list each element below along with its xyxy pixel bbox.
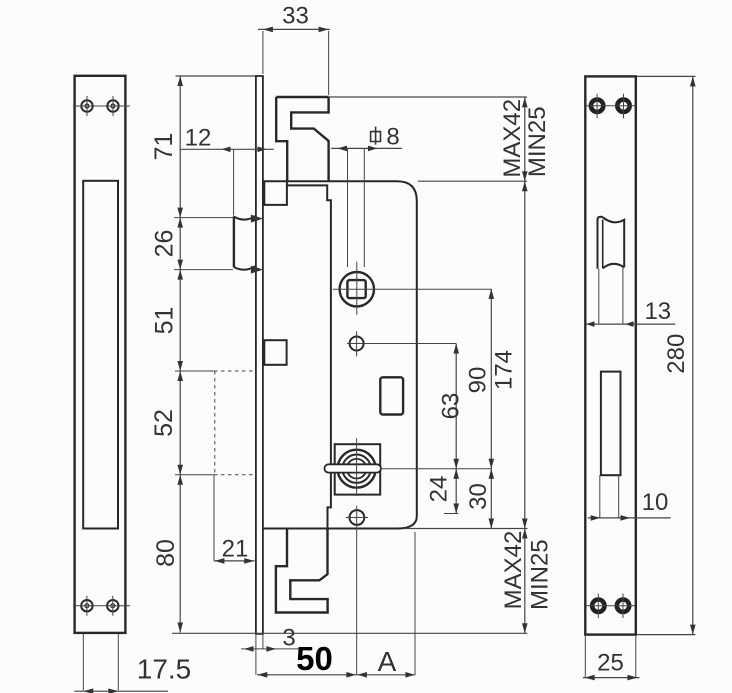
svg-text:13: 13 — [644, 298, 671, 325]
svg-text:33: 33 — [282, 3, 309, 30]
svg-text:52: 52 — [150, 409, 178, 437]
svg-text:3: 3 — [282, 625, 295, 652]
svg-text:90: 90 — [464, 367, 491, 394]
svg-text:24: 24 — [425, 476, 452, 503]
svg-text:71: 71 — [150, 133, 178, 161]
svg-text:21: 21 — [222, 536, 249, 563]
svg-text:30: 30 — [465, 483, 492, 510]
svg-text:A: A — [378, 646, 397, 677]
svg-text:50: 50 — [296, 640, 333, 677]
svg-text:12: 12 — [185, 125, 212, 152]
svg-text:MIN25: MIN25 — [526, 539, 553, 610]
svg-text:174: 174 — [490, 350, 517, 390]
svg-text:26: 26 — [151, 230, 179, 258]
svg-text:MIN25: MIN25 — [524, 106, 551, 177]
svg-text:10: 10 — [642, 489, 669, 516]
svg-text:51: 51 — [151, 307, 179, 335]
svg-text:MAX42: MAX42 — [499, 99, 526, 178]
svg-text:80: 80 — [152, 539, 180, 567]
svg-text:280: 280 — [663, 334, 690, 374]
svg-text:17.5: 17.5 — [137, 654, 192, 685]
svg-text:MAX42: MAX42 — [500, 531, 527, 610]
svg-text:63: 63 — [437, 393, 464, 420]
svg-text:25: 25 — [597, 650, 624, 677]
svg-text:8: 8 — [386, 124, 399, 151]
